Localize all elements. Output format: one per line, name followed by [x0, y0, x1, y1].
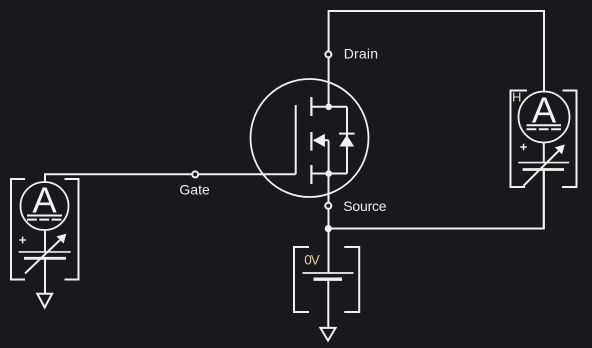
svg-text:Gate: Gate [179, 182, 210, 198]
svg-text:H: H [512, 90, 521, 105]
svg-text:A: A [532, 90, 557, 131]
svg-text:0V: 0V [304, 252, 320, 267]
svg-text:Source: Source [343, 198, 387, 214]
svg-text:A: A [32, 180, 57, 221]
svg-text:Drain: Drain [344, 45, 378, 61]
